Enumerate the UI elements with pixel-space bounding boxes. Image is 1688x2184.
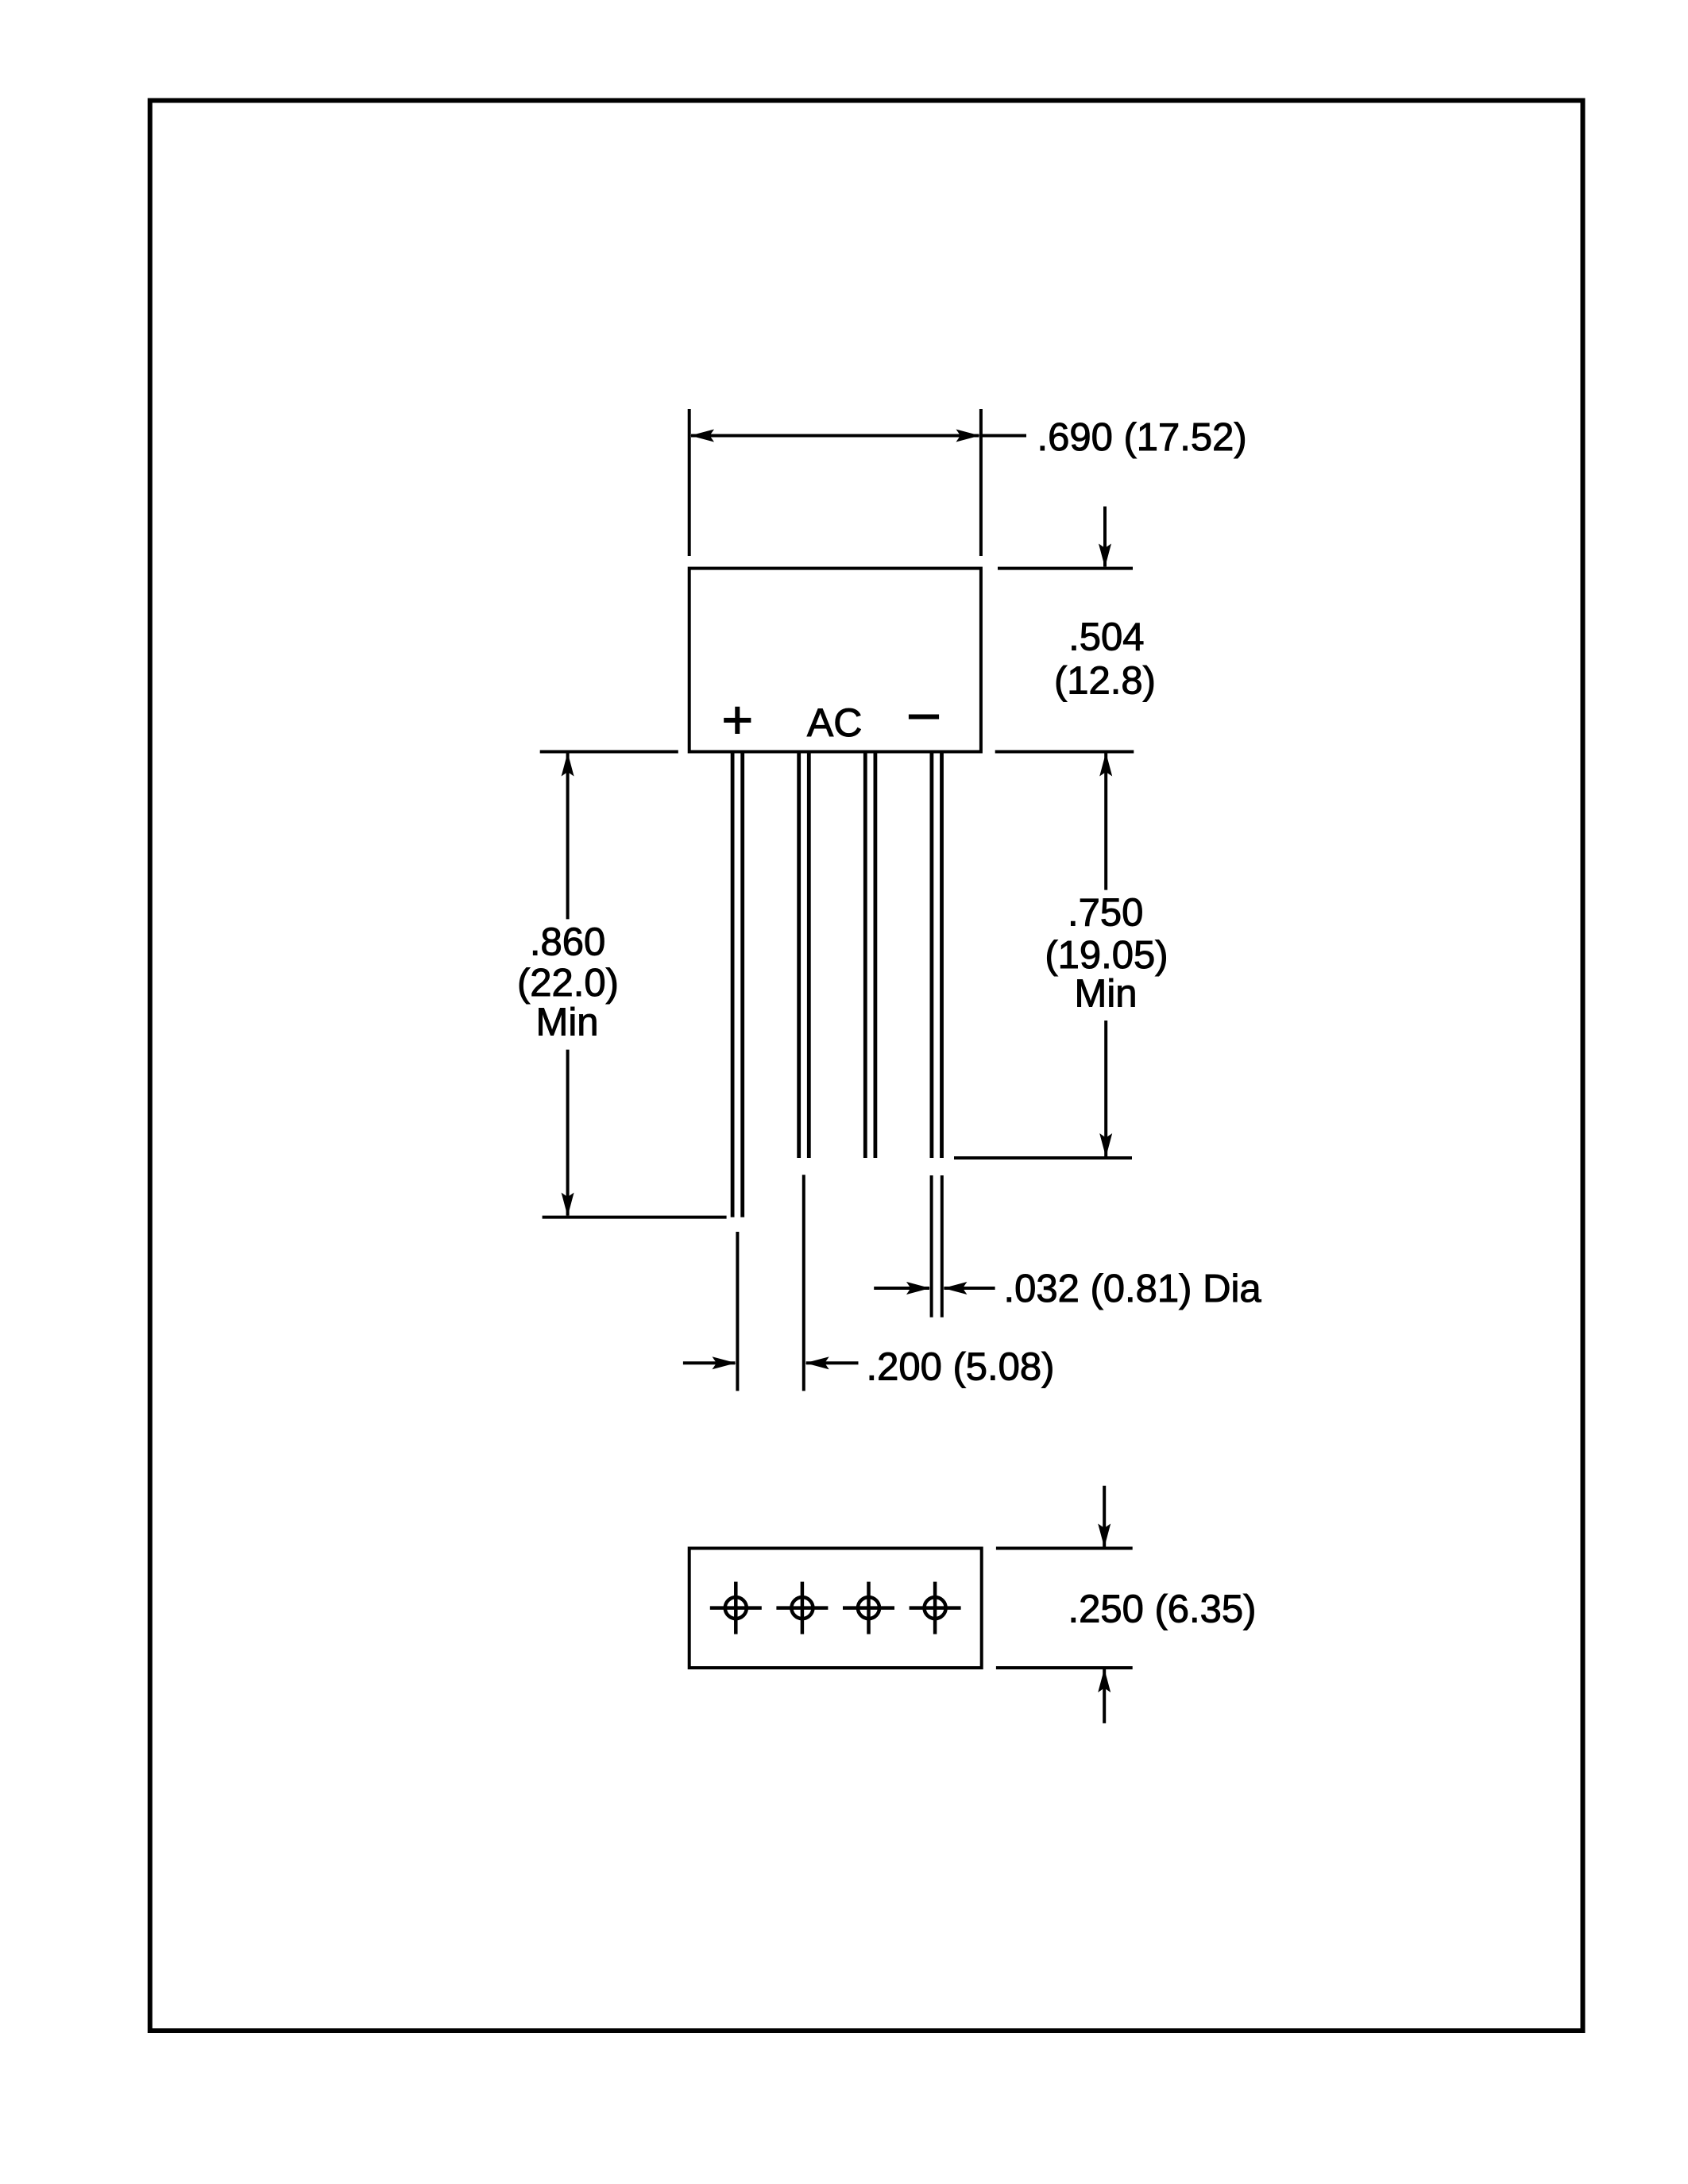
page border frame — [150, 101, 1583, 2032]
dimension .200 right arrow — [806, 1361, 859, 1364]
dimension .860 top reference line — [540, 751, 678, 754]
dimension .032 extension line right — [941, 1175, 944, 1318]
svg-text:.032 (0.81) Dia: .032 (0.81) Dia — [1004, 1268, 1262, 1310]
minus marking — [909, 715, 939, 720]
svg-text:.200 (5.08): .200 (5.08) — [867, 1346, 1055, 1389]
dimension .250 bottom reference line — [996, 1666, 1133, 1669]
dimension .690 extension line left — [688, 409, 691, 556]
dimension .690 dimension line with arrows — [691, 434, 979, 438]
pad 4 crosshair circle — [910, 1582, 961, 1634]
svg-text:(19.05): (19.05) — [1045, 934, 1168, 977]
package body outline (bottom view) — [689, 1549, 982, 1669]
dimension .250 up arrow — [1103, 1669, 1106, 1723]
dimension .860 down arrow — [566, 1050, 570, 1216]
svg-text:.690 (17.52): .690 (17.52) — [1037, 416, 1247, 459]
dimension .250 down arrow — [1103, 1486, 1106, 1547]
dimension .504 top reference line — [998, 567, 1133, 570]
dimension .032 left arrow — [874, 1287, 929, 1290]
svg-text:.504: .504 — [1068, 616, 1144, 659]
dimension .200 extension line left — [736, 1232, 739, 1391]
svg-text:.750: .750 — [1068, 892, 1143, 935]
lead 4 (-) — [932, 751, 942, 1158]
dimension .032 right arrow — [944, 1287, 995, 1290]
dimension .860 bottom reference line — [543, 1216, 727, 1219]
dimension .750 bottom arrow — [1104, 1021, 1107, 1156]
dimension .750 bottom reference line — [954, 1156, 1132, 1160]
svg-text:.250 (6.35): .250 (6.35) — [1068, 1588, 1257, 1631]
lead 1 (+) — [732, 751, 743, 1217]
svg-text:Min: Min — [1075, 972, 1138, 1015]
svg-text:(12.8): (12.8) — [1054, 660, 1156, 703]
dimension .032 extension line left — [930, 1175, 933, 1318]
pad 2 crosshair circle — [776, 1582, 828, 1634]
svg-text:AC: AC — [807, 700, 862, 745]
svg-text:.860: .860 — [530, 920, 605, 963]
lead 3 (AC) — [865, 751, 875, 1158]
pad 1 crosshair circle — [710, 1582, 762, 1634]
dimension .504 bottom / .750 top up arrow — [1104, 754, 1107, 890]
dimension .200 left arrow — [683, 1361, 736, 1364]
svg-text:Min: Min — [536, 1001, 599, 1044]
pad 3 crosshair circle — [843, 1582, 894, 1634]
dimension .250 top reference line — [996, 1547, 1133, 1550]
plus marking — [724, 707, 751, 734]
svg-text:(22.0): (22.0) — [517, 962, 619, 1005]
lead 2 (AC) — [799, 751, 809, 1158]
dimension .860 up arrow — [566, 754, 570, 920]
dimension .690 extension line right — [979, 409, 983, 556]
dimension .690 leader — [981, 434, 1026, 438]
dimension .504 top arrow — [1103, 507, 1107, 567]
dimension .504/.750 shared reference line right of body — [995, 751, 1134, 754]
package body outline (front view) — [689, 569, 981, 752]
dimension .200 extension line right — [802, 1175, 805, 1391]
